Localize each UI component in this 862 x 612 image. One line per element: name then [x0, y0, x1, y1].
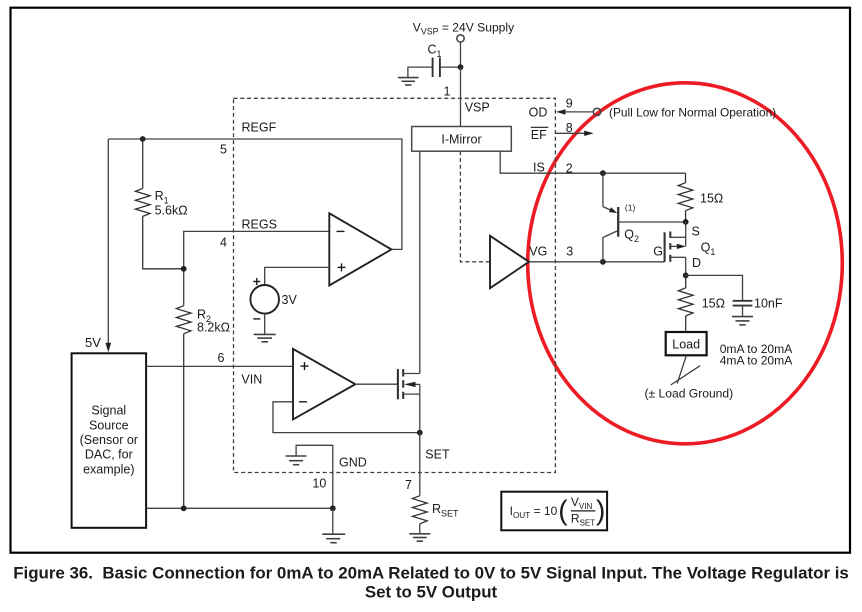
svg-text:(: ( [558, 495, 568, 526]
wire I-Mirror left lead down [419, 151, 421, 373]
wire 10nF to ground [742, 307, 744, 317]
svg-text:5: 5 [220, 142, 227, 156]
node R2/common dot [181, 505, 187, 511]
wire REGS net [184, 231, 330, 305]
resistor R2 [176, 306, 191, 509]
svg-text:3: 3 [566, 244, 573, 258]
wire 3V to ground [264, 314, 266, 334]
source 3V [250, 285, 279, 314]
OD terminal circle [593, 108, 600, 115]
ground (common) [322, 534, 345, 543]
red highlight ellipse [528, 83, 843, 444]
node S dot [683, 219, 689, 225]
node VG/Q2 dot [600, 259, 606, 265]
caption [13, 564, 849, 602]
svg-text:Signal: Signal [91, 404, 126, 418]
svg-text:10nF: 10nF [754, 297, 783, 311]
svg-text:GND: GND [339, 455, 367, 469]
wire bottom common [146, 507, 333, 509]
svg-text:DAC, for: DAC, for [85, 448, 133, 462]
svg-text:(Sensor or: (Sensor or [80, 433, 138, 447]
transistor Q1 [665, 232, 671, 262]
svg-text:8.2kΩ: 8.2kΩ [197, 321, 230, 335]
resistor 15ohm lower [678, 275, 693, 332]
svg-text:EF: EF [531, 128, 547, 142]
svg-text:VSP: VSP [465, 101, 490, 115]
svg-text:VIN: VIN [241, 373, 262, 387]
internal dashed line to VG buffer [460, 151, 490, 262]
I-Mirror block U1 [412, 127, 512, 152]
ground (10nF) [732, 317, 753, 325]
ground (3V) [254, 334, 276, 341]
wire A2 output to M1 gate [355, 383, 398, 385]
node GND/common dot [330, 505, 336, 511]
wire GND pin 10 [296, 445, 333, 508]
wire VG pin 3 [529, 261, 665, 263]
wire D node to capacitor [686, 275, 743, 300]
wire 5V feed with arrow [107, 139, 109, 344]
svg-text:(± Load Ground): (± Load Ground) [645, 386, 734, 400]
svg-text:(Pull Low for Normal Operation: (Pull Low for Normal Operation) [609, 106, 776, 120]
wire REGF net [108, 139, 402, 249]
capacitor 10nF [733, 301, 753, 306]
svg-text:6: 6 [218, 351, 225, 365]
capacitor C1 [433, 58, 440, 78]
ground (RSET) [409, 534, 430, 541]
svg-text:5V: 5V [85, 335, 101, 350]
svg-text:9: 9 [566, 97, 573, 111]
svg-text:OD: OD [529, 106, 548, 120]
svg-text:3V: 3V [282, 293, 298, 307]
svg-text:D: D [692, 256, 701, 270]
transistor Q2 [603, 173, 686, 262]
load box [666, 332, 707, 355]
ground (C1) [398, 78, 419, 85]
svg-text:): ) [596, 495, 605, 526]
svg-text:1: 1 [444, 85, 451, 99]
node IS junction dot [600, 170, 606, 176]
resistor 15ohm upper [678, 173, 693, 222]
OD arrow wire [564, 111, 593, 113]
svg-text:Source: Source [89, 418, 129, 432]
EF arrow wire [556, 132, 586, 134]
node REGS/R1/R2 dot [181, 266, 187, 272]
formula box [501, 492, 607, 531]
svg-text:SET: SET [425, 448, 450, 462]
svg-text:VG: VG [529, 244, 547, 258]
svg-text:Set to 5V Output: Set to 5V Output [365, 583, 498, 602]
svg-text:10: 10 [312, 477, 326, 491]
wire VSP pin 1 [460, 67, 462, 126]
svg-text:4mA to 20mA: 4mA to 20mA [720, 353, 794, 367]
buffer B1 [490, 236, 529, 288]
node VSP junction dot [458, 64, 464, 70]
transistor M1 (internal mosfet) [398, 369, 403, 399]
node REGF/R1 dot [140, 136, 146, 142]
svg-text:(1): (1) [625, 202, 636, 212]
resistor R1 [135, 139, 183, 269]
svg-text:S: S [692, 225, 700, 239]
svg-text:example): example) [83, 462, 134, 476]
svg-text:G: G [653, 244, 663, 258]
svg-text:15Ω: 15Ω [700, 192, 723, 206]
node D dot [683, 273, 689, 279]
ground (GND pin) [286, 456, 307, 465]
wire C1 right to node [440, 66, 461, 68]
svg-text:7: 7 [405, 478, 412, 492]
svg-text:Figure 36. Basic Connection f: Figure 36. Basic Connection for 0mA to 2… [13, 564, 849, 583]
wire I-Mirror right lead to IS [500, 151, 685, 173]
op-amp A1 [329, 213, 391, 285]
svg-text:4: 4 [220, 236, 227, 250]
supply terminal circle [457, 35, 464, 42]
svg-text:15Ω: 15Ω [702, 297, 725, 311]
svg-text:REGS: REGS [242, 217, 277, 231]
wire A1 plus input to 3V [265, 267, 330, 285]
resistor RSET [413, 496, 428, 524]
wire SET pin 7 [419, 433, 421, 496]
op-amp A2 [293, 349, 355, 420]
dashed IC boundary box [234, 98, 556, 472]
wire VIN [146, 365, 293, 367]
signal source box [72, 353, 147, 528]
wire common to ground [332, 508, 334, 534]
svg-text:I-Mirror: I-Mirror [441, 132, 481, 146]
svg-text:2: 2 [566, 162, 573, 176]
svg-text:Load: Load [672, 337, 700, 351]
wire A2 feedback [273, 402, 420, 433]
wire load to ground slash [677, 355, 686, 383]
svg-text:REGF: REGF [242, 121, 277, 135]
wire C1 left to ground [408, 67, 433, 77]
svg-text:IS: IS [533, 160, 545, 174]
svg-text:5.6kΩ: 5.6kΩ [155, 204, 188, 218]
node SET dot [417, 430, 423, 436]
wire RSET to ground [419, 524, 421, 534]
wire supply to node [460, 42, 462, 67]
